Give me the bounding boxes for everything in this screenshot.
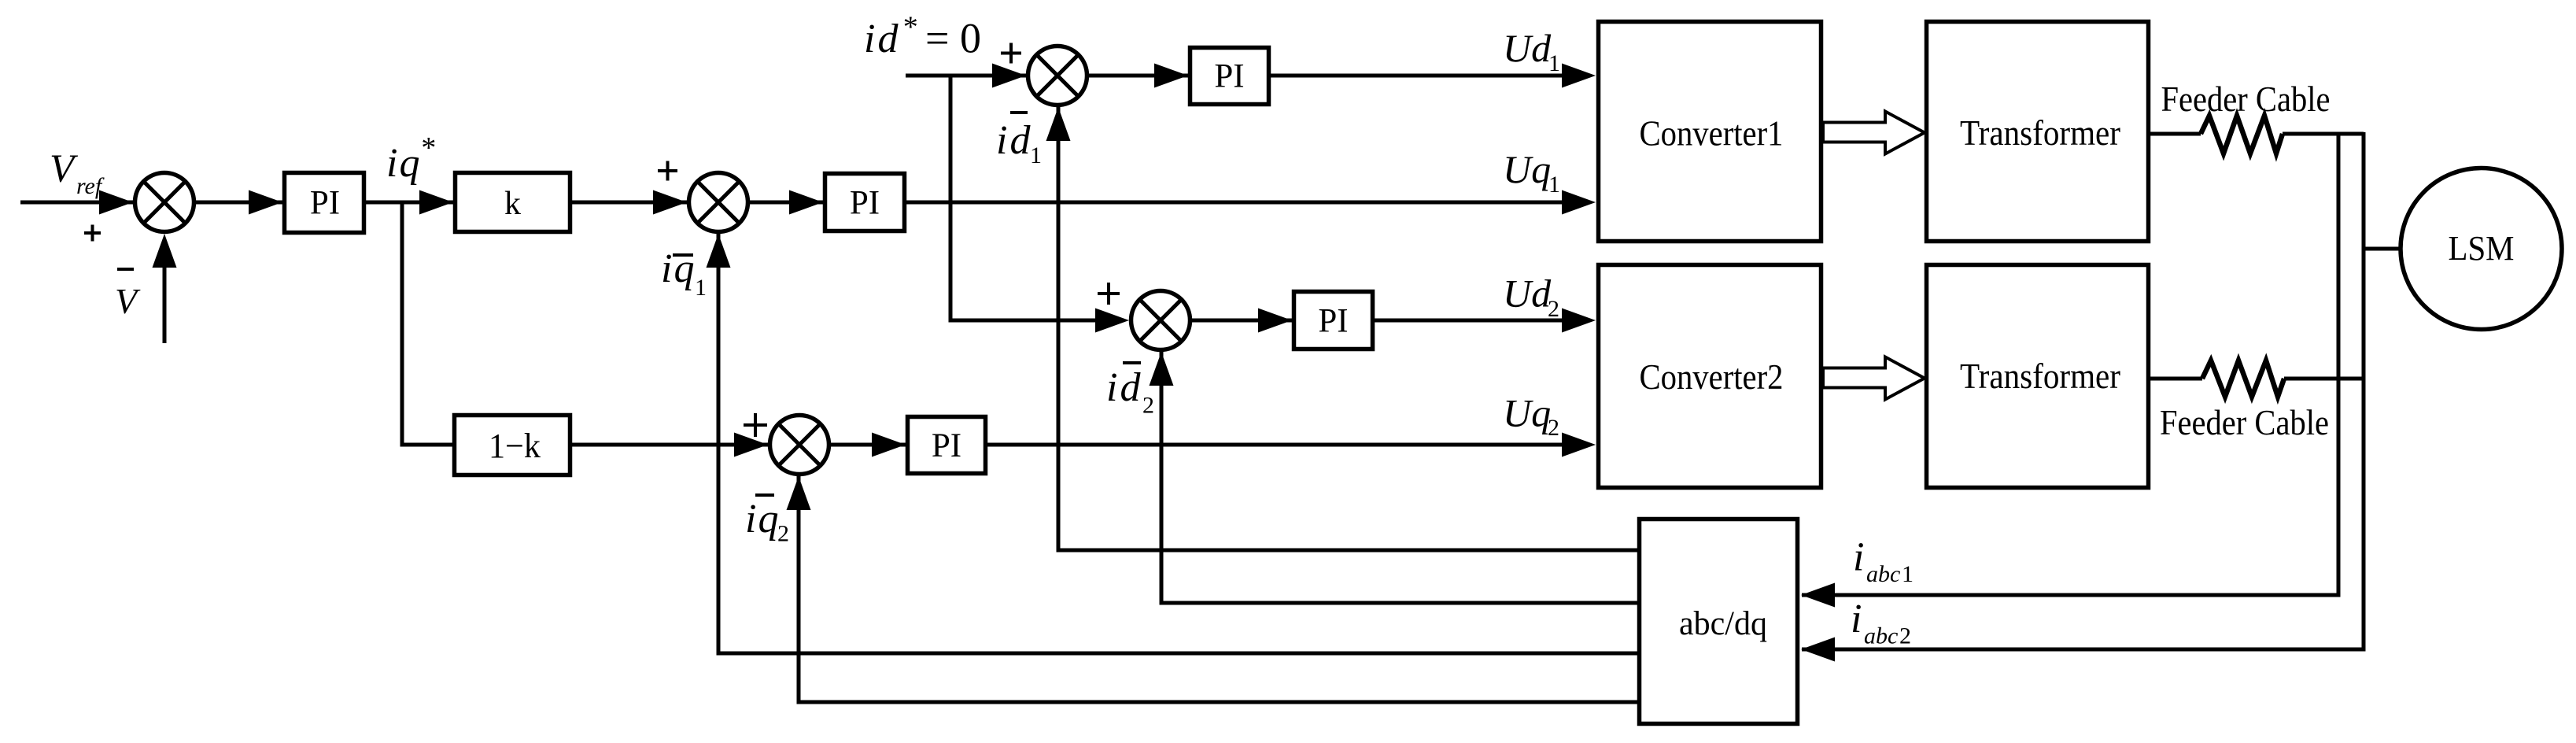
svg-text:Ud: Ud [1503,26,1552,70]
node plus sign s5 [744,413,767,437]
block Transformer1 [1927,22,2149,242]
wire feeder cable 1 with resistor zigzag [2150,132,2201,136]
svg-text:LSM: LSM [2449,229,2515,268]
svg-text:2: 2 [1548,415,1559,441]
svg-text:1: 1 [1548,172,1560,198]
node iq2bar label [755,493,774,497]
block Converter1 [1599,22,1821,242]
wire bus line A down to iabc1 [1802,132,2338,595]
svg-text:PI: PI [310,185,340,222]
wire Ud2 line PI4 to Converter2 [1375,319,1563,323]
node minus sign V [117,268,134,271]
svg-text:Feeder Cable: Feeder Cable [2160,403,2329,442]
svg-text:Uq: Uq [1503,391,1551,435]
wire LSM stub [2364,247,2401,251]
wire Uq2 line PI5 to Converter2 [987,443,1563,447]
svg-text:= 0: = 0 [925,15,981,62]
node iq1bar label [673,253,693,257]
svg-text:Converter2: Converter2 [1640,357,1784,397]
svg-text:1: 1 [1548,50,1560,76]
svg-text:i: i [1851,597,1862,641]
svg-text:Converter1: Converter1 [1640,114,1784,153]
svg-text:V: V [115,281,141,321]
svg-text:2: 2 [1899,623,1911,649]
svg-text:iq: iq [745,497,780,542]
wire S4 to PI4 [1192,319,1292,323]
wire V feedback into S1 [163,264,167,343]
svg-text:Transformer: Transformer [1960,357,2120,396]
wire S3 to PI3 [1089,74,1188,78]
svg-text:id: id [996,118,1032,163]
svg-text:1: 1 [695,275,707,301]
svg-text:1: 1 [1902,561,1914,587]
svg-text:PI: PI [1318,303,1348,340]
svg-text:1: 1 [1030,142,1042,168]
wire feedback id1 from abc/dq to S3 [1058,107,1637,550]
wire iq* branch down to 1-k [402,202,452,445]
wire feeder cable 2 with resistor zigzag [2150,377,2202,381]
svg-text:i: i [1853,535,1864,580]
svg-text:*: * [420,131,435,164]
block 1-k [455,416,570,475]
svg-text:Uq: Uq [1503,147,1551,191]
svg-text:abc/dq: abc/dq [1679,605,1767,642]
block arrow Converter1 to Transformer [1823,112,1925,154]
wire feedback iq2 from abc/dq to S5 [799,476,1637,702]
block PI1 [285,173,364,233]
node id1bar label [1010,111,1028,114]
block PI5 [908,417,986,474]
svg-text:1−k: 1−k [489,427,541,465]
wire Ud1 line PI3 to Converter1 [1271,74,1563,78]
svg-text:id: id [1106,365,1142,410]
svg-text:abc: abc [1864,623,1898,649]
svg-text:PI: PI [1214,58,1244,95]
wire Uq1 line PI2 to Converter1 [906,201,1563,205]
wire id* branch down to S4 [950,76,1095,320]
svg-text:iq: iq [386,141,421,186]
block PI3 [1190,48,1269,105]
node plus sign s2 [658,161,677,181]
block PI2 [825,174,905,231]
svg-text:2: 2 [1548,296,1559,322]
summing junction S3 [1028,46,1087,105]
wire S2 to PI2 [750,201,823,205]
svg-text:ref: ref [76,173,105,199]
node id2bar label [1123,361,1141,364]
block Transformer2 [1927,265,2149,488]
block Converter2 [1599,265,1821,488]
summing junction S5 [770,416,829,475]
block abc/dq [1640,519,1798,724]
summing junction S1 [135,173,194,232]
block arrow Converter2 to Transformer [1823,357,1925,400]
svg-text:2: 2 [1142,393,1154,419]
summing junction S4 [1131,291,1190,350]
block k [456,173,570,232]
wire 1-k to S5 [572,443,768,447]
svg-text:PI: PI [932,427,961,464]
svg-text:2: 2 [777,521,789,547]
svg-text:iq: iq [661,246,696,291]
node plus sign s1 [84,225,101,242]
node plus sign s3 [1001,43,1021,64]
node plus sign s4 [1098,283,1120,305]
svg-text:PI: PI [850,185,880,222]
svg-text:id: id [864,17,900,61]
svg-text:Transformer: Transformer [1960,113,2120,153]
wire feedback iq1 from abc/dq to S2 [718,234,1637,653]
summing junction S2 [689,173,748,232]
wire Vref input [20,201,133,205]
wire S5 to PI5 [831,443,906,447]
svg-text:*: * [902,11,917,44]
wire bus line B down to iabc2 [1802,132,2364,649]
block PI4 [1294,292,1373,349]
wire PI1 to k with branch [366,201,453,205]
svg-text:Ud: Ud [1503,272,1552,316]
svg-text:abc: abc [1866,561,1900,587]
wire S1 to PI1 [196,201,282,205]
wire k to S2 [572,201,687,205]
wire feedback id2 from abc/dq to S4 [1161,352,1637,603]
wire id* line to S3 with branch [906,74,1026,78]
svg-text:Feeder Cable: Feeder Cable [2161,79,2331,119]
svg-text:k: k [504,186,521,222]
motor LSM [2401,168,2562,330]
